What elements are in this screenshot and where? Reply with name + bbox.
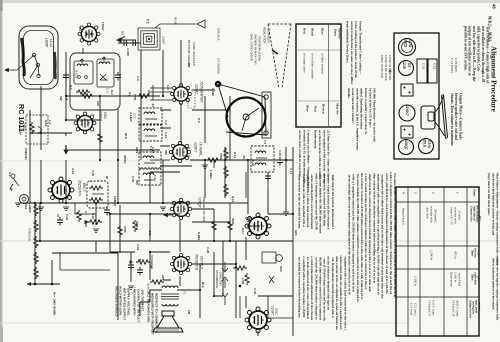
svg-text:.01 mfd.: .01 mfd. [457,210,461,221]
svg-text:STROMBERG: STROMBERG [215,270,219,288]
svg-text:C-16: C-16 [251,160,255,167]
svg-text:12SK7: 12SK7 [194,142,198,153]
svg-text:P.C: P.C [146,19,150,25]
svg-text:R-2: R-2 [110,90,114,95]
svg-text:35Z5: 35Z5 [403,39,407,47]
svg-text:B+: B+ [64,133,68,137]
svg-text:L1-L2: L1-L2 [49,39,53,47]
svg-text:M = 1000 OHMS: M = 1000 OHMS [52,292,56,315]
svg-text:Output Meter—Connect leads: Output Meter—Connect leads [459,93,463,140]
svg-text:C-12: C-12 [164,132,168,139]
resistor R3 [137,94,151,98]
svg-text:2ND DET-AF-AVC: 2ND DET-AF-AVC [202,197,206,223]
svg-text:C-18: C-18 [421,63,425,70]
svg-text:R-14: R-14 [231,196,235,203]
svg-text:12SR7 IN RC 1011A: 12SR7 IN RC 1011A [384,55,388,81]
resistor R22 vertical [212,220,216,232]
svg-text:2½ TURNS: 2½ TURNS [216,58,220,74]
IF transformer T3 [251,146,274,172]
svg-text:R-12: R-12 [233,152,237,159]
shield dashed box right of converter [188,90,195,108]
svg-text:.005: .005 [148,230,152,236]
svg-text:R-9: R-9 [197,118,201,123]
svg-text:* MEASURED WITH: * MEASURED WITH [132,287,136,316]
pilot lamp I1 [20,195,33,213]
resistor R18 vertical IRC [133,220,137,232]
svg-text:22K: 22K [147,90,151,95]
svg-text:35L6: 35L6 [423,139,427,147]
svg-text:(top) mark on dial back plate.: (top) mark on dial back plate. [487,173,491,216]
capacitor C1 [121,40,130,46]
svg-text:C-23: C-23 [65,214,69,221]
svg-text:R-3: R-3 [69,85,73,90]
svg-text:S-1: S-1 [8,172,12,177]
tube V9 35L6 output [170,253,191,274]
speaker [153,311,183,332]
output transformer T4 [146,283,186,306]
tube V8 35Z5 rect [48,177,74,203]
tube V2 12J5GT OSC [74,112,96,134]
IF transformer T2 [132,108,162,185]
text block volume control notes [298,172,397,331]
tube V6 socket right [245,213,271,239]
svg-text:CARLSON: CARLSON [219,272,223,286]
svg-text:mfd. capacitor to points. Con-: mfd. capacitor to points. Con- [477,26,481,73]
svg-text:INDICATOR: INDICATOR [262,27,266,44]
svg-text:direct indicator pointer to la: direct indicator pointer to last mark. [491,258,495,310]
small value labels [24,22,298,315]
svg-text:35Z5GT/G: 35Z5GT/G [78,180,82,196]
svg-text:470K: 470K [219,153,223,160]
svg-text:C-15: C-15 [278,150,282,157]
svg-text:455KC: 455KC [123,155,127,164]
text dial pointer adjustment [487,173,500,321]
svg-text:1 MEG: 1 MEG [209,170,213,179]
svg-text:455 kc: 455 kc [453,251,457,260]
svg-text:.02: .02 [138,258,142,262]
svg-text:C-4: C-4 [136,76,140,81]
svg-text:1st I.F. trans.: 1st I.F. trans. [431,300,435,316]
tube V7 bottom right [245,307,271,333]
svg-text:T1: T1 [182,291,186,295]
svg-text:OSC-B-A: OSC-B-A [216,28,220,41]
svg-text:PM: PM [187,310,191,315]
filter choke box [87,181,108,208]
svg-text:L-4: L-4 [65,96,69,101]
svg-text:Test Oscillator—Connect high s: Test Oscillator—Connect high side of [485,26,489,84]
svg-text:ohm resistor in the set should: ohm resistor in the set should be remo [298,174,302,228]
note voltages measured block [52,286,158,335]
svg-text:Blue: Blue [321,28,325,35]
svg-text:C14 (osc): C14 (osc) [409,303,413,315]
svg-text:C-1: C-1 [48,120,52,125]
svg-text:R-8: R-8 [128,92,132,97]
wire junction dots [34,95,294,297]
svg-text:.05: .05 [211,92,215,96]
svg-text:nect low side direct to B—. Ke: nect low side direct to B—. Keep the [472,26,476,82]
svg-text:.05: .05 [242,155,246,159]
svg-text:6J5GT IN RC 1011: 6J5GT IN RC 1011 [380,55,384,79]
svg-text:R-10: R-10 [44,120,48,127]
resistor R19 with arrow [130,255,153,269]
capacitor C27 with arrow [85,207,110,224]
svg-text:TUBE SOCKETS: TUBE SOCKETS [192,42,196,66]
svg-text:POINTER: POINTER [266,29,270,44]
capacitor C23 [57,214,69,226]
svg-text:Repeat step 2.: Repeat step 2. [401,208,405,226]
svg-text:Brown: Brown [322,104,326,114]
svg-text:CONT: CONT [24,152,28,160]
svg-text:ALL READINGS ARE: ALL READINGS ARE [146,292,150,322]
capacitor C17 [277,157,283,166]
text paragraph output transformer color coding [346,21,363,85]
svg-text:to rectifier cathode: to rectifier cathode [311,53,315,79]
capacitor C31 [137,267,143,276]
svg-text:Black: Black [311,28,315,36]
resistor R21 vertical [118,225,122,237]
resistor R2 [80,94,94,98]
svg-text:200 mmfd.: 200 mmfd. [433,209,437,223]
capacitor C4 [115,72,121,81]
svg-text:C-21: C-21 [71,168,75,175]
svg-text:47K: 47K [96,101,100,106]
extra wire stubs [60,85,293,318]
tube V1 socket top view [78,23,100,45]
label stromberg carlson [215,270,223,288]
loop antenna L1 L2 [17,26,58,89]
svg-text:46: 46 [491,4,496,9]
text paragraph 100000 ohm resistor note [347,88,377,151]
svg-text:C-9: C-9 [164,120,168,125]
svg-text:455: 455 [164,150,168,155]
svg-text:12SK7: 12SK7 [271,306,275,316]
svg-text:to filter resistor: to filter resistor [321,53,325,75]
capacitor C15 [265,173,271,182]
svg-text:to output plate: to output plate [303,53,307,73]
volume pot arrows [222,262,228,305]
svg-text:1.5M: 1.5M [241,278,245,285]
tube V4 12SK7 IF [169,141,190,162]
antenna symbol [197,20,205,28]
resistor R20 [150,280,164,284]
svg-text:OSC: OSC [279,266,283,272]
svg-text:C-30: C-30 [149,262,153,269]
svg-text:Steps: Steps [473,189,477,197]
svg-text:35L6GT/G: 35L6GT/G [195,254,199,271]
svg-text:12SK7: 12SK7 [405,105,409,116]
svg-text:SUPPLY VOLTAGE.: SUPPLY VOLTAGE. [126,288,130,316]
svg-text:C15 (ant.): C15 (ant.) [413,303,417,316]
svg-text:POSITION (CCW): POSITION (CCW) [257,36,261,61]
svg-text:test oscillator as shown throu: test oscillator as shown through a .01 [481,26,485,83]
svg-text:C-20: C-20 [91,170,95,177]
svg-text:Red: Red [314,106,318,112]
chassis tube layout top view [380,33,458,159]
svg-text:C18 and C19: C18 and C19 [451,300,455,317]
dial cord drive mechanism [215,28,271,138]
svg-text:LOOP: LOOP [161,36,165,44]
svg-text:C-10: C-10 [151,147,155,154]
svg-text:possible to avoid AVC action.: possible to avoid AVC action. [463,26,467,71]
svg-text:BLUE: BLUE [173,17,177,25]
dial pointer indicator [262,24,291,88]
svg-text:220K: 220K [135,221,139,228]
svg-text:HOLD WITHIN ±20%: HOLD WITHIN ±20% [118,286,122,316]
switch S4 [117,31,136,42]
switch S1 on-off [8,172,19,191]
svg-text:Ant. lead: Ant. lead [425,207,429,219]
svg-text:180: 180 [161,275,165,280]
svg-text:S4: S4 [121,31,125,35]
svg-text:WITH RATED SUPPLY: WITH RATED SUPPLY [122,288,126,321]
svg-text:ANT: ANT [187,62,191,68]
svg-text:OSC: OSC [81,48,85,54]
resistor R24 vertical [233,266,247,288]
svg-text:C-23: C-23 [136,244,140,251]
svg-text:SHOWN IN MAX CAP: SHOWN IN MAX CAP [253,34,257,65]
wire antenna arrow left of loop [5,68,17,71]
svg-text:C-17: C-17 [289,168,293,175]
svg-text:May Be: May Be [336,103,340,115]
svg-text:I.F. AMPL.: I.F. AMPL. [199,142,203,157]
wire B minus arrow [64,146,68,154]
svg-text:GT/G: GT/G [408,39,412,48]
resistor R6 vertical chain mid [224,148,228,196]
volume control pot R5 [18,115,48,144]
svg-text:C-14 (OSC): C-14 (OSC) [450,58,454,73]
svg-text:GT/G: GT/G [427,140,431,148]
svg-text:12SQ7: 12SQ7 [404,139,408,150]
svg-text:RC 1011: RC 1011 [17,104,26,132]
svg-text:RECT.: RECT. [82,183,86,192]
resistor R23 4.7 meg [77,210,88,227]
resistor R23 vertical [228,220,232,232]
page header number and title [488,4,498,112]
svg-text:in series with: in series with [453,207,457,224]
svg-text:DIAL CORD DRIVE: DIAL CORD DRIVE [249,34,253,61]
svg-text:2.2: 2.2 [197,236,201,240]
svg-text:Blue: Blue [306,105,310,112]
svg-text:T-3: T-3 [263,140,267,144]
svg-text:350: 350 [135,180,139,185]
svg-text:set should be removed before i: set should be removed before installing … [298,257,302,318]
svg-text:100: 100 [129,117,133,122]
svg-text:MMF: MMF [113,200,117,207]
wire blue lead to antenna [155,17,196,28]
svg-text:AVC: AVC [294,230,298,236]
svg-text:R-17: R-17 [241,228,245,235]
svg-text:C16 and C17: C16 and C17 [427,300,431,317]
svg-text:4.7: 4.7 [84,211,88,215]
svg-text:in series with: in series with [429,206,433,223]
label RC 1011 [17,104,26,132]
svg-text:.01: .01 [151,103,155,107]
svg-text:12SQ7 IN RC1011B: 12SQ7 IN RC1011B [388,55,392,80]
svg-text:47: 47 [56,214,60,218]
svg-text:C-26: C-26 [206,247,210,254]
svg-text:Replacement: Replacement [314,130,318,149]
wire main bus network [18,40,293,336]
capacitor C30 [128,262,134,271]
svg-text:12J5GT: 12J5GT [99,109,103,121]
output transformer color code table [296,24,342,127]
capacitor C5 [63,72,69,81]
svg-text:40: 40 [105,176,109,180]
svg-text:T-3: T-3 [153,175,157,179]
note bottom view of sockets [187,40,196,67]
svg-text:OSC.: OSC. [103,112,107,120]
svg-text:C-2: C-2 [105,88,109,93]
svg-text:P-80261A: P-80261A [27,228,31,241]
coil box right [245,252,283,285]
tube V3 12SA7 converter [171,84,192,105]
svg-text:from published Service Data:: from published Service Data: [346,21,350,63]
svg-text:CHANALYST OR VOLT-: CHANALYST OR VOLT- [136,289,140,323]
svg-text:500K: 500K [231,218,235,225]
svg-text:DIAL: DIAL [24,203,28,210]
svg-text:C-8: C-8 [166,85,170,90]
svg-text:Alignment Procedure: Alignment Procedure [490,46,498,112]
alignment procedure table [396,187,482,336]
wire arrow into detector [164,213,172,216]
svg-text:12SA7: 12SA7 [101,22,105,31]
svg-text:GT: GT [407,63,411,68]
svg-text:7700: 7700 [133,94,137,101]
svg-text:Red: Red [303,28,307,34]
svg-text:LOOP: LOOP [45,38,49,48]
ground symbols [15,165,289,289]
svg-text:12SQ7: 12SQ7 [198,197,202,208]
resistor chain dial lamp string [27,204,53,286]
svg-text:VOLTAGES SHOULD: VOLTAGES SHOULD [114,286,118,317]
svg-text:Quiet-point: Quiet-point [449,272,453,286]
tube V5 12SQ7 det [170,198,191,219]
svg-text:GRN: GRN [135,147,139,153]
oscillator coil box L4 [70,53,120,110]
svg-text:RESPECT TO COMMON −B.: RESPECT TO COMMON −B. [154,293,158,334]
svg-text:Stator of C-15: Stator of C-15 [449,207,453,225]
svg-text:2nd I.F. trans.: 2nd I.F. trans. [455,300,459,317]
svg-text:Output Transformer Color Codin: Output Transformer Color Coding— [359,21,363,75]
svg-text:SW: SW [59,96,63,101]
svg-text:shields.: shields. [347,88,351,99]
svg-text:VOLTOHMYST.: VOLTOHMYST. [140,290,144,312]
svg-text:on they have a built-in capaci: on they have a built-in capacitor. [298,130,302,177]
svg-text:.05: .05 [126,52,130,56]
svg-text:OSC: OSC [274,308,278,315]
svg-text:R-1: R-1 [64,145,68,150]
PC square spiral coil L3 [138,28,160,50]
svg-text:12J5: 12J5 [402,61,406,69]
svg-text:OUTPUT: OUTPUT [200,256,204,270]
text paragraph 22 ohm series fuse [298,130,331,189]
svg-text:MEASURED WITH RESPECT: MEASURED WITH RESPECT [150,293,154,335]
svg-text:C-15 (ANT): C-15 (ANT) [454,58,458,72]
svg-text:C-25: C-25 [131,176,135,183]
svg-text:BLK: BLK [201,282,205,288]
svg-text:C-12: C-12 [432,63,436,70]
svg-text:C-32: C-32 [253,288,257,295]
svg-text:R-E15: R-E15 [74,70,78,79]
svg-text:Data: Data [334,29,338,36]
svg-text:LAMPS: LAMPS [28,203,32,213]
svg-text:CONVERTER: CONVERTER [200,82,204,103]
svg-text:output of test oscillator as l: output of test oscillator as low as [468,26,472,76]
text paragraph test oscillator instructions [450,26,490,146]
svg-text:470K: 470K [123,226,127,233]
capacitor C2 [130,40,139,46]
resistor R4 vertical [98,132,102,144]
svg-text:between speaker voice coil and: between speaker voice coil and [454,93,458,140]
svg-text:BLK: BLK [124,133,128,139]
svg-text:output: output [477,302,481,311]
svg-text:chassis. Turn volume to maximu: chassis. Turn volume to maximum. [450,93,454,146]
resistor R7 [206,158,220,162]
svg-text:end of dial: end of dial [457,273,461,286]
svg-text:S-1: S-1 [78,27,82,32]
